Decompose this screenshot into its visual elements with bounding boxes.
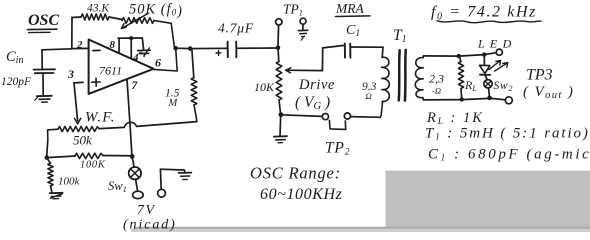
svg-text:4.7μF: 4.7μF	[218, 21, 254, 36]
svg-text:OSC Range:: OSC Range:	[250, 164, 341, 183]
svg-text:100K: 100K	[80, 160, 106, 171]
svg-text:C1 : 680pF (ag-mica: C1 : 680pF (ag-mica	[428, 147, 590, 163]
svg-text:2: 2	[76, 39, 83, 51]
svg-text:120pF: 120pF	[1, 76, 32, 88]
svg-text:T1 : 5mH ( 5:1 ratio): T1 : 5mH ( 5:1 ratio)	[425, 126, 590, 142]
svg-text:6: 6	[155, 56, 161, 70]
svg-text:MRA: MRA	[335, 1, 364, 16]
svg-text:60~100KHz: 60~100KHz	[260, 186, 343, 203]
svg-text:OSC: OSC	[28, 12, 59, 29]
svg-text:Ω: Ω	[366, 91, 372, 101]
svg-text:Drive: Drive	[298, 77, 335, 93]
svg-text:50k: 50k	[73, 133, 92, 148]
svg-text:-Ω: -Ω	[432, 86, 441, 96]
svg-text:10K: 10K	[254, 80, 275, 94]
svg-text:( VG ): ( VG )	[295, 94, 330, 112]
svg-text:TP3: TP3	[526, 67, 553, 84]
svg-text:(nicad): (nicad)	[123, 218, 177, 233]
svg-text:M: M	[168, 98, 179, 109]
svg-text:7611: 7611	[99, 64, 122, 78]
svg-text:f0 = 74.2 kHz: f0 = 74.2 kHz	[431, 4, 537, 23]
svg-text:8: 8	[110, 39, 116, 51]
svg-text:7V: 7V	[137, 203, 156, 218]
svg-text:43.K: 43.K	[87, 3, 110, 15]
svg-text:3: 3	[67, 67, 74, 81]
svg-text:L E D: L E D	[477, 37, 512, 51]
svg-text:2,3: 2,3	[429, 72, 444, 86]
svg-text:RL : 1K: RL : 1K	[426, 110, 484, 126]
svg-text:W.F.: W.F.	[85, 110, 116, 126]
svg-text:100k: 100k	[58, 176, 81, 188]
